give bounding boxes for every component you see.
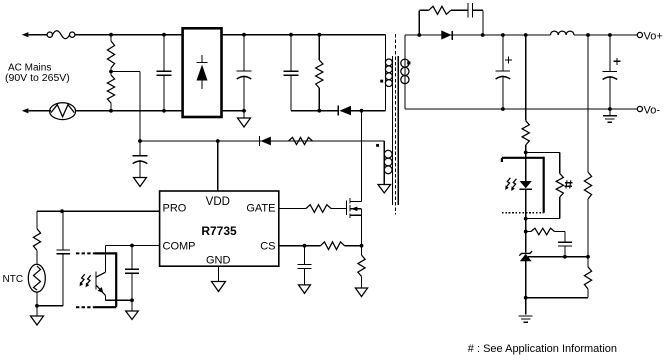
svg-text:Vo+: Vo+ [644, 30, 663, 42]
svg-text:NTC: NTC [3, 274, 24, 285]
svg-text:VDD: VDD [206, 196, 230, 208]
svg-text:Vo-: Vo- [644, 104, 661, 116]
svg-text:# : See Application Informatio: # : See Application Information [468, 343, 617, 355]
svg-text:(90V to 265V): (90V to 265V) [5, 72, 70, 84]
svg-text:R7735: R7735 [201, 224, 237, 238]
svg-text:GATE: GATE [246, 202, 275, 214]
svg-text:CS: CS [260, 240, 275, 252]
svg-text:GND: GND [206, 255, 231, 267]
svg-text:COMP: COMP [163, 240, 196, 252]
svg-text:PRO: PRO [163, 202, 187, 214]
